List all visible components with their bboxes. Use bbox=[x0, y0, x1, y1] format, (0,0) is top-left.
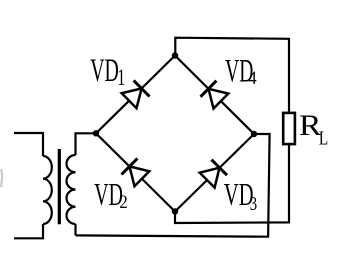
svg-text:1: 1 bbox=[117, 65, 125, 90]
wire: primary top lead bbox=[14, 133, 43, 156]
wire: top node to resistor top bbox=[175, 38, 289, 113]
primary winding bbox=[43, 156, 52, 224]
transformer core bbox=[58, 149, 61, 224]
node: bottom (- output) bbox=[172, 208, 178, 214]
wire: secondary top to left AC node bbox=[76, 133, 97, 155]
wire: bridge edge top node to right node bbox=[175, 56, 254, 135]
stray faint mark at left edge bbox=[1, 169, 2, 187]
node: top (+ output) bbox=[172, 52, 178, 58]
wire: right node loop to secondary bottom bbox=[76, 134, 270, 237]
wire: secondary bottom lead bbox=[74, 224, 76, 235]
svg-text:3: 3 bbox=[250, 193, 257, 215]
diode VD2 bbox=[122, 158, 150, 186]
diode VD4 bbox=[201, 81, 229, 109]
svg-text:4: 4 bbox=[248, 68, 257, 89]
diode VD1 bbox=[122, 80, 150, 108]
node: left AC input bbox=[93, 130, 99, 136]
wire: bridge edge left node to bottom node bbox=[96, 133, 175, 211]
wire: bridge edge bottom node to right node bbox=[175, 134, 254, 212]
wire: primary bottom lead bbox=[14, 224, 43, 238]
svg-text:L: L bbox=[319, 127, 328, 149]
diode VD3 bbox=[200, 160, 227, 188]
wire: resistor bottom to bottom node bbox=[175, 144, 289, 223]
node: right AC input bbox=[251, 131, 257, 137]
svg-text:VD: VD bbox=[90, 53, 119, 89]
wire: bridge edge left node to top node bbox=[96, 56, 175, 134]
secondary winding bbox=[67, 155, 76, 224]
resistor RL bbox=[283, 113, 295, 144]
svg-text:2: 2 bbox=[119, 192, 127, 213]
